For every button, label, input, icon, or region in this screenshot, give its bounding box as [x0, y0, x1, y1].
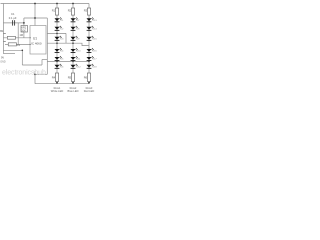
svg-text:Blue LED: Blue LED [68, 89, 79, 93]
LED D16 [87, 48, 94, 53]
wire vr1 bottom stub [23, 32, 25, 38]
LED D12 [71, 64, 78, 69]
LED D3 [55, 36, 62, 41]
wire ground y64 [22, 64, 42, 66]
svg-text:R6: R6 [84, 76, 88, 80]
wire column3 lower [88, 82, 90, 84]
wire y18 to bus [24, 17, 47, 19]
IC left pin dots [30, 37, 31, 45]
LED D15 [87, 36, 94, 41]
LED D5 [55, 56, 62, 61]
svg-text:R2: R2 [68, 8, 72, 12]
wire jog x42 [41, 60, 43, 66]
svg-text:electronicshub: electronicshub [2, 69, 46, 76]
svg-text:Red LED: Red LED [84, 89, 95, 93]
wire top rail [1, 3, 90, 5]
LED D8 [71, 26, 78, 31]
LED D17 [87, 56, 94, 61]
wire vdd drop x35 [34, 4, 36, 26]
resistor R5 [71, 73, 74, 82]
wire vr1 top stub [23, 23, 25, 26]
svg-text:0.1 µF: 0.1 µF [9, 16, 17, 20]
resistor R1 [55, 8, 58, 15]
wire left rail [2, 4, 4, 54]
wire bottom rail y83.7 [35, 83, 89, 85]
wire jog x66 [65, 33, 67, 43]
LED D4 [55, 48, 62, 53]
svg-text:R3: R3 [84, 8, 88, 12]
svg-text:IC 4060: IC 4060 [31, 42, 42, 46]
wire pin y53.6 [3, 53, 15, 55]
resistor R2 10K [7, 36, 15, 39]
svg-text:10K: 10K [21, 29, 26, 32]
wire ic bottom mid x35 [34, 71, 36, 84]
wire C1 feed y22.9 [3, 22, 24, 24]
svg-text:GND: GND [0, 61, 6, 64]
wire tap y33.4 [47, 32, 66, 34]
svg-text:9V: 9V [1, 56, 4, 59]
node A junction dots [22, 3, 90, 84]
svg-text:U1: U1 [33, 37, 37, 41]
wire tap y61.4 [47, 60, 89, 62]
wire tap y43.2 [47, 42, 73, 44]
LED D6 [55, 64, 62, 69]
wire y74.3 stub [35, 73, 47, 75]
LED D14 [87, 26, 94, 31]
LED D11 [71, 56, 78, 61]
LED D13 [87, 17, 94, 22]
battery B1 [3, 34, 5, 42]
wire column2 [72, 4, 74, 74]
wire column1 lower [56, 82, 58, 84]
svg-text:White LED: White LED [51, 89, 64, 93]
wire inter col2-col3 [73, 43, 89, 45]
LED D1 [55, 17, 62, 22]
resistor VR1 [21, 26, 28, 33]
wire column3 [88, 4, 90, 74]
op-amp U1 IC 4060 box [30, 26, 46, 55]
wire jog up to y18 [23, 18, 25, 23]
LED D2 [55, 26, 62, 31]
wire pin y37.8 [3, 37, 30, 39]
wire column1 [56, 4, 58, 74]
svg-text:B1: B1 [0, 29, 4, 33]
wire column2 lower [72, 82, 74, 84]
LED D18 [87, 64, 94, 69]
wire pin y50.3 [3, 49, 22, 51]
wire y59.5 to bus [42, 59, 47, 61]
resistor R3 [87, 8, 90, 15]
LED D10 [71, 48, 78, 53]
bus x47 [46, 18, 48, 74]
resistor R6 [87, 73, 90, 82]
capacitor C1 [13, 20, 15, 25]
capacitor C2 [8, 43, 16, 46]
LED D9 [71, 36, 78, 41]
svg-text:R1: R1 [52, 8, 56, 12]
svg-text:C1: C1 [11, 12, 15, 16]
svg-text:R5: R5 [68, 76, 72, 80]
wire pin y44.4 [5, 43, 30, 45]
resistor R4 [55, 73, 58, 82]
LED D7 [71, 17, 78, 22]
svg-text:R4: R4 [52, 76, 56, 80]
resistor R2 [71, 8, 74, 15]
svg-text:1M: 1M [20, 34, 23, 37]
wire pin drop x22.3 [21, 50, 23, 65]
wire ic left chain vertical x18.2 [17, 23, 19, 45]
